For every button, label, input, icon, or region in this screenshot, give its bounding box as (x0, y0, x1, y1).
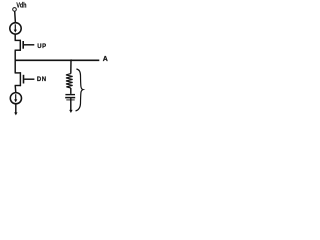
current source I1 (circle) (10, 23, 21, 34)
capacitor C bottom plate (scan double line) (66, 99, 74, 101)
node A wire (horizontal) (15, 59, 100, 61)
brace } spanning RC load (76, 69, 84, 111)
terminal Vdd (open circle) (13, 8, 17, 12)
current source I1 arrow (down) (14, 24, 16, 30)
svg-text:UP: UP (37, 44, 46, 50)
transistor UP : gate lead (24, 44, 35, 46)
wire I1 to UP source (14, 34, 16, 40)
wire UP drain to node A line (14, 50, 16, 60)
bottom arrowhead (RC branch) (69, 110, 72, 113)
transistor DN : gate lead (24, 78, 34, 80)
transistor DN : drain lead (15, 72, 21, 74)
capacitor C top plate (65, 94, 75, 96)
svg-text:A: A (103, 56, 108, 63)
current source I2 arrow (down) (15, 94, 17, 100)
transistor DN : channel (19, 72, 21, 86)
bottom arrowhead (left branch) (14, 112, 17, 115)
wire I2 to bottom arrow (15, 104, 17, 113)
junction node-A / RC branch (70, 59, 72, 61)
capacitor C bottom plate (65, 97, 75, 99)
resistor R (zigzag) (66, 74, 73, 88)
wire terminal to current source I1 (14, 11, 17, 22)
transistor DN : source lead (15, 85, 21, 87)
wire capacitor to bottom arrow (70, 98, 72, 110)
wire node A down to resistor (70, 60, 72, 73)
wire DN source to current source I2 (14, 86, 17, 93)
transistor UP : source lead (15, 39, 21, 41)
current source I2 (circle) (10, 93, 21, 104)
transistor UP : channel (19, 40, 21, 51)
transistor UP : drain lead (15, 49, 21, 51)
wire node to DN drain (14, 60, 16, 73)
svg-text:Vdh: Vdh (16, 2, 26, 10)
wire resistor to capacitor (70, 88, 72, 94)
svg-text:DN: DN (37, 77, 47, 83)
transistor UP : gate bar (22, 41, 24, 49)
transistor DN : gate bar (23, 75, 25, 84)
